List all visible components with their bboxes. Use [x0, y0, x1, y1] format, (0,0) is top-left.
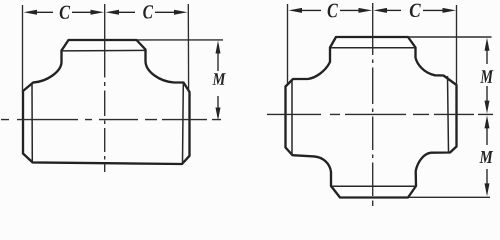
- label M cross-lower: [479, 151, 493, 163]
- cross right bevel inner line: [448, 76, 449, 152]
- label C cross-left: [328, 4, 338, 18]
- dimension line C cross-left: [289, 8, 373, 13]
- dimension line M cross-lower: [485, 115, 490, 196]
- dimension line C tee-left: [24, 10, 105, 15]
- label M tee: [212, 73, 225, 85]
- cross M bottom reference line: [409, 196, 490, 198]
- dimension line C cross-right: [374, 8, 457, 13]
- tee left extension line: [22, 5, 24, 92]
- tee outline: [23, 40, 190, 164]
- tee right end bevel inner line: [182, 83, 185, 163]
- label M cross-upper: [480, 70, 493, 83]
- cross outline: [286, 37, 457, 198]
- cross bottom bevel inner line: [332, 185, 416, 187]
- dimension line M tee: [216, 41, 221, 121]
- dimension line C tee-right: [106, 10, 188, 15]
- tee right extension line: [187, 4, 189, 92]
- tee left end bevel inner line: [31, 83, 33, 162]
- tee vertical centerline: [104, 4, 106, 172]
- dimension line M cross-upper: [485, 38, 490, 114]
- cross left bevel inner line: [291, 80, 293, 155]
- cross right extension line: [456, 5, 458, 86]
- cross vertical centerline: [372, 3, 374, 206]
- cross M top reference line: [408, 36, 492, 38]
- tee branch bevel inner line: [62, 49, 146, 52]
- label C cross-right: [410, 4, 421, 17]
- cross top bevel inner line: [330, 47, 416, 49]
- label C tee-right: [143, 5, 153, 18]
- tee horizontal centerline: [1, 119, 221, 121]
- tee M top reference line: [137, 39, 223, 41]
- cross horizontal centerline: [267, 113, 493, 115]
- cross left extension line: [287, 4, 289, 84]
- label C tee-left: [60, 6, 70, 19]
